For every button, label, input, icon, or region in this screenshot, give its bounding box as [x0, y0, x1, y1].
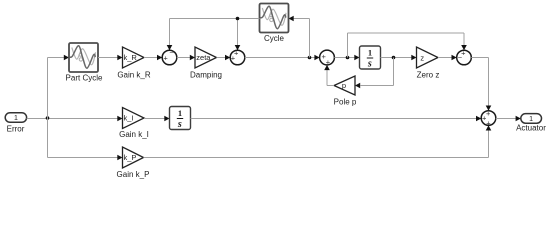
wire Gain k_P to sum6: [144, 125, 492, 157]
node bypass tap: [346, 56, 350, 60]
svg-text:Gain k_P: Gain k_P: [117, 170, 150, 179]
output port Actuator: [516, 114, 546, 133]
wire Cycle output feedback: [167, 19, 260, 51]
wire sum1 to Damping: [177, 55, 195, 61]
svg-text:Actuator: Actuator: [516, 124, 546, 133]
integrator U2 1/s: [170, 107, 191, 130]
svg-text:Damping: Damping: [190, 71, 222, 80]
svg-text:s: s: [177, 119, 182, 130]
svg-text:1: 1: [368, 47, 372, 57]
svg-text:+: +: [326, 57, 331, 66]
wire Gain k_R to sum1: [144, 55, 162, 61]
wire sum6 to Actuator: [496, 116, 521, 122]
svg-text:+: +: [231, 54, 236, 63]
wire Error to Gain k_I: [27, 116, 123, 122]
gain Damping: [190, 47, 222, 80]
integrator U1 1/s: [360, 46, 381, 69]
block Part Cycle: [66, 43, 103, 83]
svg-text:1: 1: [529, 116, 533, 123]
svg-text:Pole p: Pole p: [334, 98, 357, 107]
svg-text:Cycle: Cycle: [264, 34, 285, 43]
svg-text:zeta: zeta: [196, 53, 211, 62]
gain Gain k_I: [119, 108, 149, 140]
svg-text:Zero z: Zero z: [417, 71, 440, 80]
wire sum3 to Integrator: [334, 55, 359, 61]
gain Zero z: [417, 47, 440, 80]
sum junction S5 output: [481, 109, 496, 128]
wire branch to Gain k_P: [48, 155, 123, 161]
wire Damping to sum2: [217, 55, 231, 61]
node tap to Cycle: [308, 56, 312, 60]
gain Gain k_P: [117, 147, 150, 179]
svg-text:s: s: [367, 58, 372, 69]
sum junction S3: [320, 50, 335, 66]
wire bypass over integrator: [348, 33, 467, 58]
svg-text:+: +: [163, 53, 168, 62]
wire sum4 to sum5 output column: [471, 58, 491, 111]
sum junction S2: [230, 48, 245, 65]
wire Zero z to sum5: [438, 55, 457, 61]
svg-text:Part Cycle: Part Cycle: [66, 74, 103, 83]
block Cycle: [260, 4, 289, 44]
svg-text:+: +: [461, 48, 466, 57]
svg-text:Gain k_R: Gain k_R: [117, 71, 151, 80]
svg-text:1: 1: [14, 115, 18, 122]
svg-text:Gain k_I: Gain k_I: [119, 130, 149, 139]
wire Gain k_I to integrator2: [144, 116, 170, 122]
wire Part Cycle to Gain k_R: [98, 55, 123, 61]
wire Pole p to sum3: [324, 65, 334, 86]
gain Pole p: [334, 76, 357, 107]
svg-text:+: +: [486, 109, 491, 118]
svg-text:k_R: k_R: [124, 53, 138, 62]
wire branch vertical: [47, 58, 49, 158]
wire integrator2 to sum6: [191, 116, 482, 122]
wire tap up into Cycle: [289, 16, 310, 58]
svg-text:k_I: k_I: [124, 114, 134, 123]
sum junction S4: [457, 48, 472, 65]
wire branch to Part Cycle: [48, 55, 70, 61]
node pole feedback tap: [392, 56, 396, 60]
input port Error: [5, 113, 26, 134]
node branch junction: [46, 116, 50, 120]
svg-text:1: 1: [178, 108, 182, 118]
svg-text:−: −: [169, 48, 174, 57]
svg-text:k_P: k_P: [124, 153, 137, 162]
svg-text:Error: Error: [7, 125, 25, 134]
node on Cycle feedback: [236, 17, 240, 21]
svg-text:p: p: [342, 81, 346, 90]
svg-text:z: z: [420, 53, 424, 62]
wire integrator to Zero z: [381, 55, 417, 61]
gain Gain k_R: [117, 47, 151, 80]
wire tap down to Pole p: [355, 58, 394, 89]
sum junction S1: [162, 48, 177, 65]
wire sum2 to sum3: [245, 55, 320, 61]
